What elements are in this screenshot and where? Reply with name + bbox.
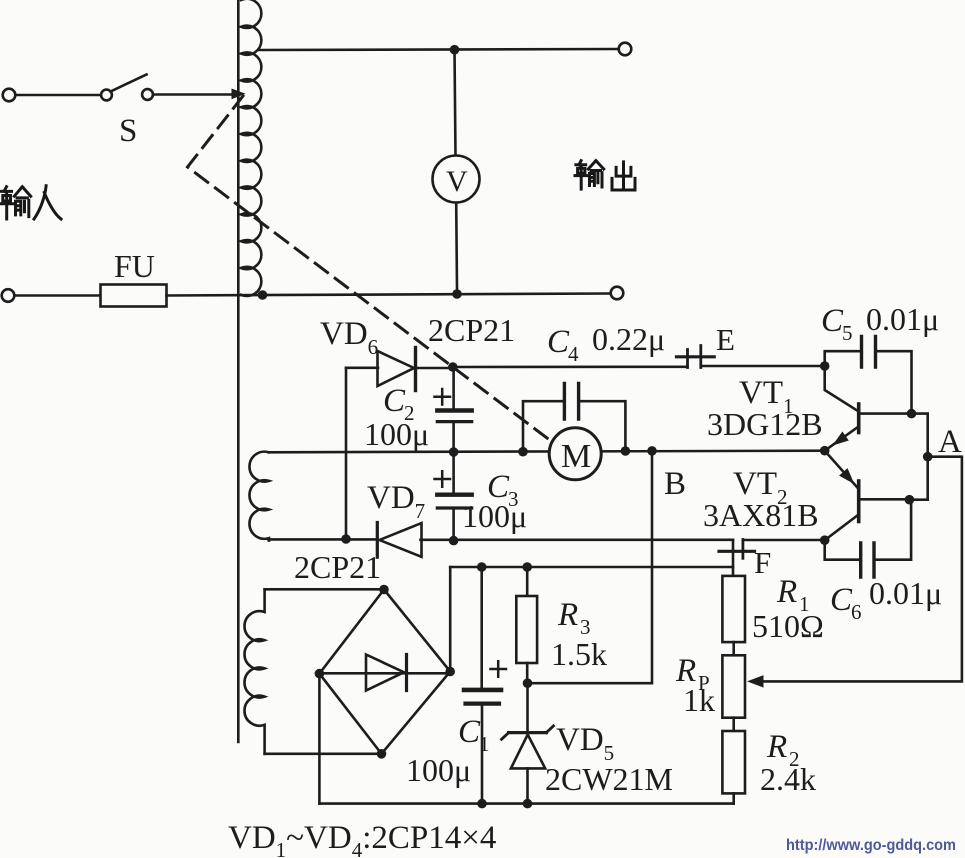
svg-text:C: C	[458, 714, 481, 750]
label Rp	[675, 653, 715, 718]
svg-text:R: R	[776, 574, 797, 610]
secondary winding for bridge	[244, 589, 264, 754]
label R2	[760, 729, 816, 797]
junction dot VD6 cathode / C2 / C4 line	[448, 362, 458, 372]
junction dot R3/VD5/B branch	[523, 678, 533, 688]
label C3	[462, 469, 527, 534]
capacitor C3	[435, 452, 472, 541]
label 2CW21M	[545, 761, 673, 797]
junction dot voltmeter top	[450, 45, 460, 55]
svg-text:http://www.go-gddq.com: http://www.go-gddq.com	[786, 837, 956, 854]
svg-text:R: R	[766, 729, 787, 765]
wire bases to node A	[909, 414, 927, 500]
transistor VT1 3DG12B	[825, 366, 912, 451]
label 输出 (output)	[575, 161, 635, 190]
capacitor C6	[825, 500, 911, 577]
junction dot C1 bottom	[477, 799, 487, 809]
fuse FU	[101, 285, 167, 307]
label F	[754, 545, 771, 580]
svg-text:0.01μ: 0.01μ	[866, 301, 939, 337]
bridge inner diode	[319, 655, 448, 691]
svg-text:2.4k: 2.4k	[760, 761, 816, 797]
junction dot bridge left vertex	[315, 669, 325, 679]
svg-text:1: 1	[479, 732, 490, 756]
svg-text:VD1~VD4:2CP14×4: VD1~VD4:2CP14×4	[228, 820, 496, 858]
label C6	[830, 575, 942, 624]
label E	[716, 322, 735, 357]
svg-text:2CW21M: 2CW21M	[545, 761, 673, 797]
label C4 value	[547, 321, 665, 366]
junction dot VT emitters node	[820, 446, 830, 456]
junction dot node B	[647, 446, 657, 456]
watermark	[786, 837, 956, 854]
label R1	[752, 574, 824, 644]
svg-text:2CP21: 2CP21	[428, 312, 515, 348]
junction dot rail C1	[477, 562, 487, 572]
wire left vertical VD6 to VD7	[345, 368, 348, 541]
zener diode VD5 2CW21M	[502, 683, 554, 803]
capacitor C1 100u	[464, 567, 506, 804]
svg-text:6: 6	[851, 600, 862, 624]
svg-text:0.22μ: 0.22μ	[592, 321, 665, 357]
svg-text:5: 5	[842, 321, 853, 345]
wire bridge winding top lead	[265, 588, 382, 591]
switch S	[101, 75, 153, 101]
label 输入 (input)	[0, 186, 61, 219]
motor bypass capacitor	[523, 384, 625, 452]
junction dot rail R3	[522, 562, 532, 572]
svg-text:1k: 1k	[683, 682, 715, 718]
junction dot motor cap right	[621, 446, 631, 456]
junction dot bridge top vertex	[379, 585, 389, 595]
bridge rectifier diamond	[319, 590, 450, 754]
svg-text:B: B	[664, 466, 686, 502]
svg-text:100μ: 100μ	[462, 498, 527, 534]
voltmeter V	[433, 50, 480, 289]
transistor VT2 3AX81B	[825, 451, 910, 541]
transformer primary winding	[241, 0, 261, 296]
junction dot motor cap left	[518, 447, 528, 457]
diode VD7 2CP21	[377, 523, 421, 558]
output terminal lower	[611, 287, 624, 300]
junction dot VT2 collector node F	[820, 535, 830, 545]
junction dot VT1 collector node E	[820, 361, 830, 371]
junction dot VT2 base	[905, 495, 915, 505]
svg-text:C: C	[547, 324, 570, 360]
wire connector E to VT1 collector	[701, 365, 825, 368]
wire bridge positive riser	[449, 567, 452, 672]
label VD7	[367, 480, 425, 523]
label B	[664, 466, 686, 502]
transformer core line	[237, 0, 240, 742]
connector E	[677, 346, 715, 368]
svg-text:E: E	[716, 322, 735, 357]
output terminal upper	[619, 43, 632, 56]
wire switch to variac tap	[153, 93, 233, 96]
junction dot bridge bottom vertex	[377, 749, 387, 759]
svg-text:VD6: VD6	[320, 316, 378, 359]
wire bridge winding bottom lead	[265, 752, 380, 755]
wire bottom rail	[319, 802, 733, 805]
label A	[938, 424, 962, 460]
secondary winding for motor supply	[249, 452, 269, 541]
label VT2	[733, 466, 788, 509]
svg-text:0.01μ: 0.01μ	[869, 575, 942, 611]
resistor R2 2.4k	[722, 731, 745, 804]
capacitor C2	[435, 367, 472, 452]
wire VD6 anode from left corner	[346, 366, 378, 369]
junction dot voltmeter bottom	[452, 289, 462, 299]
svg-text:C: C	[821, 303, 844, 339]
svg-text:100μ: 100μ	[406, 752, 471, 788]
diode VD6 2CP21	[378, 348, 451, 391]
svg-text:100μ: 100μ	[364, 416, 429, 452]
svg-text:F: F	[754, 545, 771, 580]
svg-text:1.5k: 1.5k	[551, 636, 607, 672]
junction dot C2/C3	[449, 447, 459, 457]
connector F	[719, 540, 755, 559]
potentiometer wiper arrow	[747, 675, 764, 687]
svg-text:V: V	[446, 165, 468, 198]
label 3AX81B	[703, 497, 819, 533]
wire node B vertical drop	[532, 451, 652, 683]
wire positive rail	[450, 566, 733, 569]
label VD5	[556, 722, 614, 765]
label VT1	[739, 375, 794, 418]
wire node B horizontal	[269, 451, 825, 453]
junction dot winding bottom on AC line	[258, 290, 268, 300]
svg-text:A: A	[938, 424, 962, 460]
label S	[119, 113, 137, 149]
svg-text:VD5: VD5	[556, 722, 614, 765]
mechanical linkage dashed line	[188, 96, 552, 441]
input terminal lower	[2, 289, 15, 302]
svg-text:FU: FU	[114, 248, 155, 284]
label 2CP21 top	[428, 312, 515, 348]
resistor R3 1.5k	[516, 567, 537, 683]
label 3DG12B	[707, 406, 823, 442]
capacitor C5	[825, 337, 912, 414]
junction dot VD5 bottom	[523, 799, 533, 809]
svg-text:C: C	[830, 582, 853, 618]
wire transformer top to output terminal (upper AC line)	[259, 49, 619, 50]
junction dot VT1 base	[907, 409, 917, 419]
junction dot node A	[923, 452, 933, 462]
wire fuse to output terminal (lower AC line)	[167, 294, 611, 296]
wire bridge negative drop	[318, 674, 321, 804]
svg-text:S: S	[119, 113, 137, 149]
variac tap arrow	[232, 89, 246, 100]
wire C4 line to connector E	[453, 365, 688, 368]
wire VD7 line (motor winding bottom to F)	[269, 538, 734, 541]
svg-text:R: R	[557, 597, 578, 633]
wire connector F to VT2 collector	[743, 539, 825, 542]
label R3	[551, 597, 607, 672]
svg-text:VD7: VD7	[367, 480, 425, 523]
motor M	[549, 428, 601, 480]
label C1	[406, 714, 490, 788]
input terminal upper	[3, 89, 16, 102]
label C5	[821, 301, 939, 345]
junction dot VD7 left vertical	[341, 534, 351, 544]
svg-text:M: M	[561, 438, 591, 475]
svg-text:510Ω: 510Ω	[752, 608, 824, 644]
label VD1~VD4 bridge type	[228, 820, 496, 858]
svg-text:C: C	[383, 383, 406, 419]
wire input line to switch	[16, 94, 102, 97]
potentiometer Rp 1k	[722, 655, 745, 731]
svg-text:3AX81B: 3AX81B	[703, 497, 819, 533]
label 2CP21 bottom	[294, 549, 381, 585]
junction dot C3 bottom	[449, 536, 459, 546]
label VD6	[320, 316, 378, 359]
junction dot bridge right vertex	[445, 667, 455, 677]
label FU	[114, 248, 155, 284]
svg-text:3DG12B: 3DG12B	[707, 406, 823, 442]
svg-text:4: 4	[568, 342, 579, 366]
svg-text:2CP21: 2CP21	[294, 549, 381, 585]
wire input lower to fuse	[15, 294, 101, 297]
resistor R1 510 ohm	[722, 540, 745, 656]
wire node A to potentiometer wiper	[762, 457, 962, 682]
label C2	[364, 383, 429, 452]
